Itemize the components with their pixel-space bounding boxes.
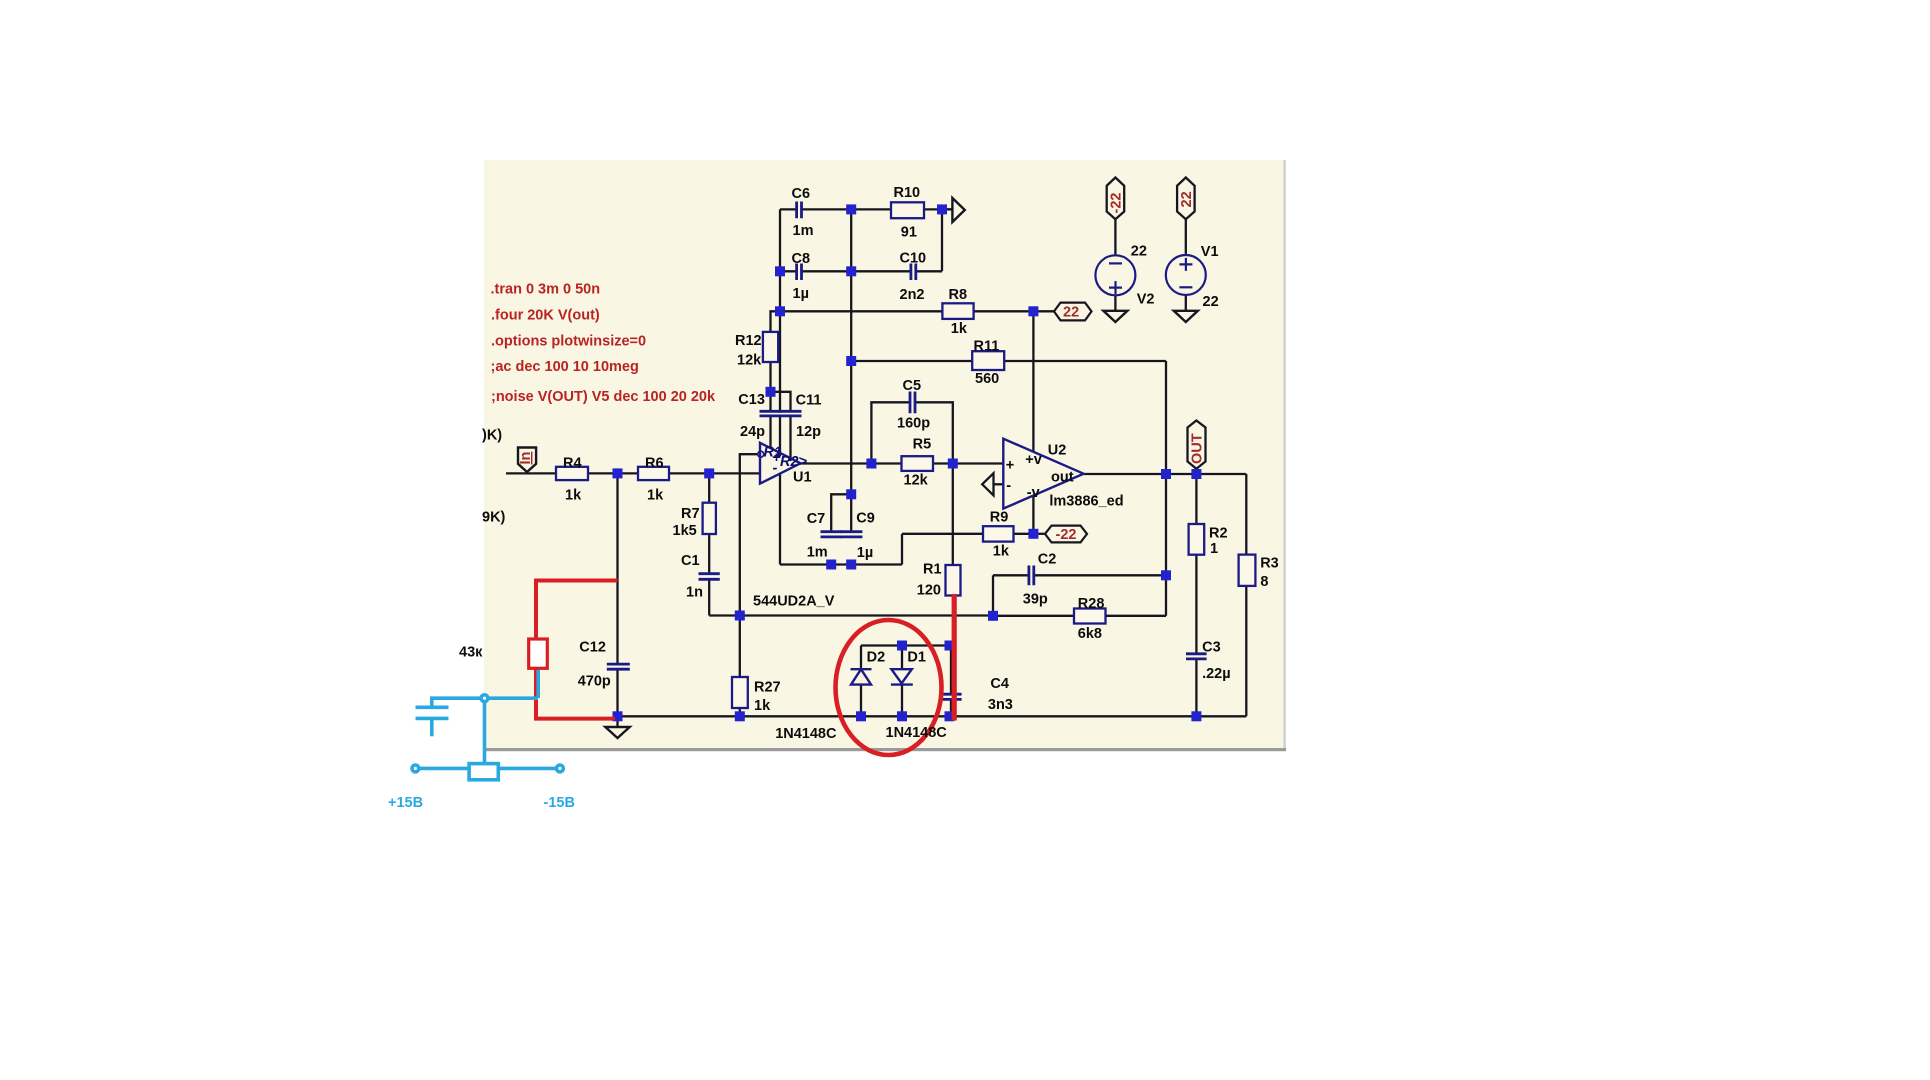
svg-text:R8: R8 — [949, 287, 968, 303]
svg-text:1n: 1n — [686, 584, 703, 600]
wire R11 row — [851, 360, 1166, 362]
wire C12 column from R4-R6 junction — [616, 473, 618, 663]
svg-text:544UD2A_V: 544UD2A_V — [753, 594, 835, 610]
svg-text:6k8: 6k8 — [1078, 626, 1102, 642]
wire C6-C8 left vertical — [779, 209, 781, 411]
wire C3 bottom stem — [1195, 659, 1197, 716]
svg-text:1m: 1m — [807, 544, 828, 560]
wire R11 right corner down to OUT row — [1165, 361, 1167, 474]
svg-text:R6: R6 — [645, 456, 664, 472]
resistor R11 — [972, 351, 1004, 370]
svg-text:-22: -22 — [1108, 193, 1124, 214]
voltage source V1 circle — [1166, 255, 1206, 295]
wire U2 output row — [1084, 473, 1247, 475]
wire R4 to R6 — [588, 472, 638, 474]
capacitor C6 plates — [797, 202, 802, 219]
wire C13 C11 lower stems — [771, 416, 791, 461]
ground at C12 node — [605, 727, 629, 738]
cyan resistor rect — [469, 764, 498, 780]
wire R2 bottom to C3 — [1195, 555, 1197, 654]
flag 22 hexagon mid — [1054, 303, 1092, 321]
svg-text:U1: U1 — [793, 470, 812, 486]
wire R5 row to U2 +input — [953, 462, 1004, 464]
junction OUT row left — [1161, 469, 1171, 479]
svg-text:1µ: 1µ — [857, 545, 873, 561]
svg-text:12p: 12p — [796, 424, 821, 440]
svg-text:U2: U2 — [1048, 442, 1067, 458]
svg-text:out: out — [1051, 469, 1074, 485]
svg-text:560: 560 — [975, 371, 999, 387]
svg-text:C2: C2 — [1038, 551, 1057, 567]
capacitor C5 plates — [910, 392, 915, 414]
junction C2 right — [1161, 570, 1171, 580]
svg-text:3n3: 3n3 — [988, 697, 1013, 713]
junction C7 bottom — [826, 560, 836, 570]
diode D1 — [891, 669, 913, 684]
resistor R8 — [942, 303, 973, 319]
wire R27 top stem — [739, 616, 741, 678]
junction rail C3 — [1191, 711, 1201, 721]
schematic cream background — [484, 160, 1284, 748]
svg-text:1µ: 1µ — [793, 286, 809, 302]
wire R9 row left — [902, 533, 983, 535]
junction U1 out C5 — [866, 459, 876, 469]
svg-text:C4: C4 — [990, 676, 1009, 692]
svg-text:1k: 1k — [993, 543, 1010, 559]
capacitor C8 plates — [797, 264, 802, 281]
cyan capacitor plates — [416, 707, 449, 718]
svg-text:1k: 1k — [754, 698, 771, 714]
svg-text:1N4148C: 1N4148C — [886, 725, 948, 741]
svg-text:R28: R28 — [1078, 596, 1105, 612]
svg-text:1k: 1k — [647, 488, 664, 504]
resistor R28 — [1074, 609, 1106, 624]
svg-text:.four 20K V(out): .four 20K V(out) — [491, 307, 600, 323]
svg-text:;ac dec 100 10 10meg: ;ac dec 100 10 10meg — [491, 359, 639, 375]
capacitor C11 plates — [780, 411, 802, 416]
flag IN pentagon — [518, 448, 536, 473]
wire U1 output row — [800, 462, 902, 464]
capacitor C2 plates — [1029, 566, 1034, 586]
svg-text:R11: R11 — [974, 338, 1000, 354]
junction C9 bottom — [846, 560, 856, 570]
svg-text:.options plotwinsize=0: .options plotwinsize=0 — [491, 334, 646, 350]
wire C1 bottom to opamp bottom rail — [708, 581, 710, 616]
junction diode rail D1 — [897, 641, 907, 651]
svg-text:470p: 470p — [578, 674, 611, 690]
wire feedback vertical right — [1165, 474, 1167, 575]
svg-text:R5: R5 — [913, 437, 932, 453]
capacitor C13 plates — [760, 411, 782, 416]
diode D2 — [851, 669, 872, 684]
svg-text:-: - — [773, 461, 778, 477]
wire R7 bottom to C1 — [708, 534, 710, 573]
svg-text:R9: R9 — [990, 509, 1009, 525]
capacitor C1 plates — [699, 574, 720, 580]
resistor R6 — [638, 467, 669, 480]
junction OUT flag — [1191, 469, 1201, 479]
resistor R12 — [763, 332, 778, 362]
wire C5 loop right — [915, 402, 953, 463]
wire C11 jog — [771, 392, 791, 412]
wire C2 row — [993, 574, 1166, 576]
flag -22 hexagon at R9 — [1045, 526, 1087, 543]
red highlight ellipse around diodes — [836, 620, 942, 755]
junction rail D1 — [897, 711, 907, 721]
svg-text:+15В: +15В — [388, 795, 423, 811]
svg-text:160p: 160p — [897, 416, 930, 432]
svg-text:C6: C6 — [792, 186, 811, 202]
wire C12 bottom to ground junction — [616, 668, 618, 716]
ground V1 — [1174, 311, 1198, 322]
junction C13 top — [766, 387, 776, 397]
svg-text:22: 22 — [1131, 243, 1147, 259]
capacitor C7 plates — [821, 532, 843, 537]
svg-text:1k5: 1k5 — [673, 523, 697, 539]
svg-text:)K): )K) — [482, 427, 502, 443]
svg-text:12k: 12k — [737, 353, 762, 369]
wire C5 loop left — [871, 402, 910, 463]
wire C4 stems — [950, 646, 952, 717]
flag 22 vertical hexagon V1 — [1177, 178, 1195, 220]
junction R8 left — [775, 306, 785, 316]
svg-text:1: 1 — [1210, 541, 1218, 557]
svg-text:R27: R27 — [754, 679, 781, 695]
wire C13 stem — [769, 392, 771, 412]
resistor R2 — [1189, 524, 1205, 555]
wire main bottom rail — [618, 715, 1247, 717]
wire jog up to U1 noninv pin — [740, 454, 758, 615]
junction R6-R7 — [704, 468, 714, 478]
wire V1 flag stem — [1185, 219, 1187, 255]
svg-text:C10: C10 — [900, 251, 927, 267]
cyan terminal circle right — [557, 765, 564, 772]
wire input row left of R4 — [506, 472, 556, 474]
junction rail C4 — [945, 711, 955, 721]
junction rail R27 bottom — [735, 711, 745, 721]
cyan wire node to resistor — [483, 702, 487, 764]
svg-text:8: 8 — [1260, 574, 1268, 590]
wire R28 rail — [993, 575, 1166, 616]
svg-text:R2: R2 — [1209, 526, 1228, 542]
wire arrow stub right of R10 — [942, 208, 952, 210]
junction diode rail right — [945, 641, 955, 651]
wire D2 stems — [860, 646, 862, 717]
red wire below 43k resistor — [534, 668, 615, 718]
wire R12 bottom to C13 junction — [769, 362, 771, 392]
wire V2 flag stem — [1114, 219, 1116, 255]
svg-text:+: + — [1006, 457, 1014, 473]
svg-text:.tran 0 3m 0 50n: .tran 0 3m 0 50n — [491, 281, 601, 297]
arrow marker at U2 inverting input — [982, 473, 993, 495]
flag -22 vertical hexagon V2 — [1107, 178, 1125, 220]
svg-text:R3: R3 — [1260, 556, 1279, 572]
svg-text:C7: C7 — [807, 511, 826, 527]
svg-text:;noise V(OUT) V5 dec 100 20 20: ;noise V(OUT) V5 dec 100 20 20k — [491, 389, 716, 405]
resistor R1 — [946, 565, 961, 596]
svg-text:C13: C13 — [738, 392, 765, 408]
wire long vertical C6-C8-R11-C9 — [850, 209, 852, 494]
wire opamp bottom rail — [709, 614, 993, 616]
wire R5 right to C5 corner junction — [933, 462, 953, 464]
wire R8 row — [780, 310, 1033, 312]
wire C2 corner down — [992, 575, 994, 616]
svg-text:1m: 1m — [793, 223, 814, 239]
svg-text:1N4148C: 1N4148C — [775, 726, 837, 742]
wire OUT flag stem — [1195, 469, 1197, 474]
resistor R5 — [902, 456, 934, 471]
svg-text:R2>: R2> — [780, 454, 808, 470]
svg-text:C8: C8 — [792, 251, 811, 267]
wire V1 ground stem — [1185, 295, 1187, 311]
svg-text:V1: V1 — [1201, 244, 1219, 260]
wire R1 top stem — [952, 464, 954, 566]
svg-text:91: 91 — [901, 225, 917, 241]
svg-text:.22µ: .22µ — [1202, 666, 1231, 682]
svg-text:24p: 24p — [740, 424, 765, 440]
op-amp U1 — [758, 443, 801, 484]
wire R9 jog down — [901, 534, 903, 565]
svg-text:C1: C1 — [681, 553, 700, 569]
wire D1 stems — [901, 646, 903, 717]
wire -22 flag stub — [1033, 533, 1045, 535]
wire R27 bottom stem — [739, 708, 741, 716]
resistor R7 — [703, 503, 716, 534]
wire U2 -v vertical to R9 — [1032, 495, 1034, 534]
wire diode top rail — [861, 644, 950, 646]
svg-text:R10: R10 — [894, 185, 921, 201]
wire R7 top stem — [708, 473, 710, 502]
gray border bottom of schematic — [484, 748, 1286, 751]
svg-text:1k: 1k — [565, 488, 582, 504]
junction C2 corner — [988, 611, 998, 621]
wire C9 top stem — [850, 494, 852, 531]
svg-text:43к: 43к — [459, 644, 483, 660]
cyan capacitor stem bottom — [430, 720, 434, 736]
wire ground stem at C12 — [616, 716, 618, 727]
resistor R3 — [1239, 555, 1256, 586]
svg-text:+v: +v — [1025, 452, 1042, 468]
svg-text:V2: V2 — [1137, 291, 1155, 307]
resistor R4 — [556, 467, 588, 480]
capacitor C12 plates — [607, 664, 630, 669]
junction ground C12 — [613, 711, 623, 721]
svg-text:C9: C9 — [856, 511, 875, 527]
wire R2 top stem — [1195, 474, 1197, 524]
svg-text:9K): 9K) — [482, 509, 506, 525]
junction R8 right 22 flag — [1028, 306, 1038, 316]
svg-text:D1: D1 — [907, 649, 926, 665]
arrow marker right of R10 — [952, 198, 964, 222]
capacitor C3 plates — [1186, 654, 1207, 659]
wire 22 flag stub — [1033, 310, 1054, 312]
junction C8 left — [775, 266, 785, 276]
flag OUT vertical hexagon — [1188, 421, 1206, 469]
svg-text:-22: -22 — [1056, 527, 1077, 543]
junction R11 left — [846, 356, 856, 366]
wire V2 ground stem — [1114, 295, 1116, 310]
wire U1 feedback vertical — [779, 474, 781, 565]
op-amp U2 — [1003, 439, 1083, 509]
svg-text:R12: R12 — [735, 333, 762, 349]
svg-text:D2: D2 — [867, 649, 886, 665]
junction R9 right — [1028, 529, 1038, 539]
svg-text:2n2: 2n2 — [900, 287, 925, 303]
junction C9 top — [846, 489, 856, 499]
svg-text:-v: -v — [1027, 485, 1040, 501]
cyan wire vertical overlap red — [536, 670, 540, 698]
junction C8 right — [846, 266, 856, 276]
svg-text:12k: 12k — [904, 473, 929, 489]
wire U2 +v vertical — [1032, 311, 1034, 452]
cyan node circle at junction — [481, 695, 488, 702]
cyan wire to right terminal — [498, 767, 556, 771]
svg-text:22: 22 — [1203, 294, 1219, 310]
resistor R10 — [891, 202, 924, 218]
wire C8 row — [780, 209, 942, 271]
wire C7 C9 bottom rail — [780, 563, 902, 565]
junction rail D2 — [856, 711, 866, 721]
svg-text:R7: R7 — [681, 506, 700, 522]
cyan terminal circle left — [412, 765, 419, 772]
red wire top segment to C12 column — [536, 579, 618, 640]
svg-text:39p: 39p — [1023, 591, 1048, 607]
capacitor C9 plates — [841, 532, 863, 537]
junction opamp rail R27 — [735, 611, 745, 621]
svg-text:R1: R1 — [923, 561, 942, 577]
red wire R1 to bottom rail — [952, 594, 957, 721]
svg-text:C5: C5 — [903, 378, 922, 394]
junction C6 row — [846, 204, 856, 214]
wire R9 row right to -v junction — [1014, 533, 1034, 535]
svg-text:120: 120 — [917, 582, 941, 598]
junction R10 right — [937, 204, 947, 214]
svg-text:22: 22 — [1179, 191, 1195, 207]
junction R4-R6 — [613, 468, 623, 478]
capacitor C10 plates — [911, 264, 916, 281]
svg-text:-15В: -15В — [544, 795, 575, 811]
capacitor C4 plates — [941, 694, 962, 699]
svg-text:-: - — [1006, 478, 1011, 494]
svg-text:22: 22 — [1063, 305, 1079, 321]
wire C7 top jog — [831, 494, 851, 531]
wire U2 inv arrow stub — [994, 483, 1004, 485]
wire C6 row — [780, 208, 952, 210]
svg-text:R4: R4 — [563, 456, 582, 472]
U1 noninv pin circle — [758, 451, 764, 457]
cyan wire to left terminal — [419, 767, 469, 771]
svg-text:lm3886_ed: lm3886_ed — [1049, 493, 1123, 509]
resistor R9 — [983, 526, 1014, 541]
svg-text:C3: C3 — [1202, 639, 1221, 655]
cyan capacitor stem top — [430, 698, 434, 705]
resistor R27 — [732, 677, 748, 708]
cyan wire horizontal — [430, 696, 538, 700]
gray border right of schematic — [1284, 160, 1286, 748]
wire R12 jog top — [771, 311, 781, 332]
svg-text:OUT: OUT — [1190, 433, 1206, 464]
ground V2 — [1103, 311, 1127, 322]
svg-text:C12: C12 — [579, 640, 606, 656]
svg-text:In: In — [518, 452, 534, 465]
wire R6 to U1 inverting input — [669, 472, 760, 474]
svg-text:1k: 1k — [951, 321, 968, 337]
wire R3 branch — [1245, 474, 1247, 716]
resistor 43k red — [529, 639, 548, 668]
junction R5 right — [948, 459, 958, 469]
svg-text:C11: C11 — [796, 392, 822, 408]
voltage source V2 circle — [1095, 255, 1135, 295]
